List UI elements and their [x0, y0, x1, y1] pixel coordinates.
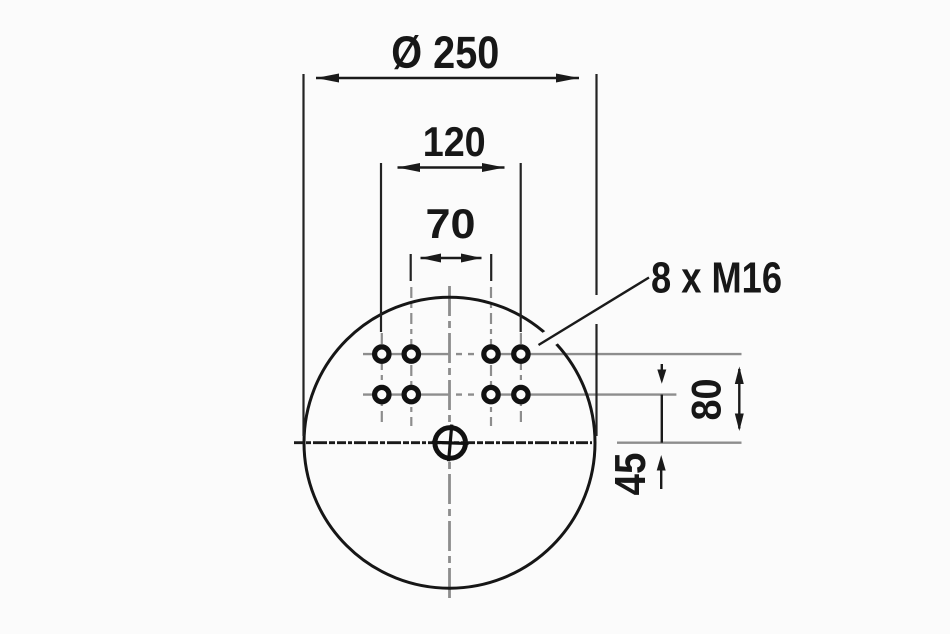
svg-text:120: 120 [423, 118, 486, 165]
svg-text:Ø 250: Ø 250 [391, 27, 499, 78]
svg-text:70: 70 [426, 200, 476, 247]
svg-text:80: 80 [683, 379, 730, 421]
svg-text:8 x M16: 8 x M16 [651, 254, 782, 303]
svg-text:45: 45 [606, 453, 655, 496]
